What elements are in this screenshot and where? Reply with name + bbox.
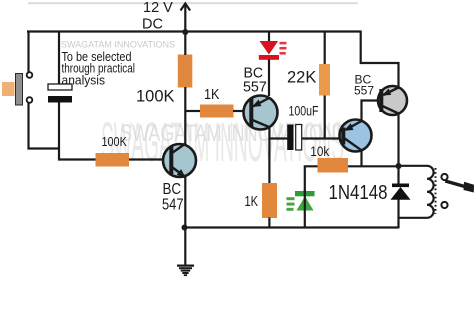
- svg-text:1K: 1K: [245, 194, 259, 210]
- wire to coupling cap: [269, 137, 287, 139]
- wire cap to Q3 base: [302, 137, 342, 139]
- wire piezo bottom: [29, 103, 59, 149]
- wire rail end step: [361, 31, 399, 87]
- resistor 100K horizontal: [96, 153, 130, 167]
- svg-text:12 V: 12 V: [143, 0, 173, 16]
- relay contact top: [441, 174, 447, 180]
- LED red D1: [259, 41, 287, 60]
- resistor 1K second: [262, 183, 277, 218]
- diode 1N4148: [391, 166, 411, 228]
- wire 10k left stub: [305, 166, 318, 191]
- svg-text:557: 557: [354, 84, 374, 98]
- svg-text:100K: 100K: [136, 88, 175, 106]
- wire LED to BC557: [268, 60, 270, 97]
- wire top rail: [27, 30, 361, 32]
- label BC 557 gray: [354, 72, 374, 97]
- watermark top gray line: [28, 2, 358, 4]
- wire bottom rail: [185, 226, 399, 228]
- transistor Q1 BC547: [163, 144, 196, 179]
- piezo transducer: [2, 72, 32, 105]
- label BC 547: [162, 181, 184, 214]
- node relay junction: [396, 163, 402, 169]
- svg-text:DC: DC: [142, 17, 163, 33]
- wire 1K to base BC557: [233, 110, 245, 112]
- wire collector chain BC547: [185, 32, 200, 145]
- relay core dotted line: [435, 168, 437, 214]
- resistor 100K vertical: [178, 55, 193, 88]
- svg-text:SWAGATAM INNOVATIONS: SWAGATAM INNOVATIONS: [120, 120, 348, 147]
- wire base BC547: [129, 158, 164, 160]
- wire ground stem: [184, 228, 186, 266]
- wire Q3 emitter up to gray base: [362, 101, 381, 122]
- wire Q3 collector down: [360, 150, 362, 167]
- wire LED drop: [268, 32, 270, 43]
- supply arrow: [181, 4, 191, 33]
- svg-text:22K: 22K: [287, 69, 316, 87]
- transistor Q2 BC557: [244, 96, 278, 130]
- wire 1K second to rail: [268, 218, 270, 228]
- relay contact bottom: [441, 202, 447, 208]
- node supply junction: [182, 29, 188, 35]
- svg-text:547: 547: [162, 196, 184, 213]
- label BC 557 blue: [243, 65, 267, 96]
- relay coil: [427, 166, 434, 218]
- wire 10k row: [348, 165, 399, 167]
- wire collector BC557 down: [268, 127, 270, 184]
- note text box: [62, 50, 136, 87]
- wire mic drop: [58, 31, 60, 85]
- resistor 1K first: [200, 105, 234, 118]
- wire mic bottom: [59, 103, 96, 160]
- svg-text:BC: BC: [163, 181, 182, 198]
- svg-text:1K: 1K: [204, 87, 220, 103]
- svg-text:557: 557: [243, 79, 267, 96]
- svg-text:10k: 10k: [310, 144, 329, 159]
- transistor Q4 BC557 gray: [378, 86, 407, 115]
- power label 12 V DC: [142, 0, 173, 33]
- svg-text:1N4148: 1N4148: [329, 182, 388, 204]
- resistor 22K: [319, 64, 330, 96]
- wire relay top: [399, 165, 428, 167]
- svg-text:SWAGATAM INNOVATIONS: SWAGATAM INNOVATIONS: [61, 40, 175, 51]
- wire relay bottom: [399, 217, 428, 219]
- resistor 10k: [318, 158, 349, 173]
- wire Q4 collector down: [397, 114, 399, 167]
- wire 22K bottom: [324, 96, 326, 139]
- wire through green LED to rail: [304, 190, 306, 228]
- capacitor 100uF: [287, 125, 302, 151]
- svg-text:100uF: 100uF: [289, 104, 319, 119]
- node emitter junction: [182, 225, 188, 231]
- transistor Q3: [340, 120, 372, 152]
- relay armature: [445, 181, 474, 193]
- wire 22K top: [324, 32, 326, 65]
- ground: [177, 266, 194, 276]
- svg-text:100K: 100K: [102, 135, 128, 149]
- wire left drop to piezo: [27, 31, 29, 73]
- wire emitter BC547 down: [184, 177, 186, 228]
- capacitor mic element: [48, 84, 72, 103]
- LED green D2: [287, 191, 315, 211]
